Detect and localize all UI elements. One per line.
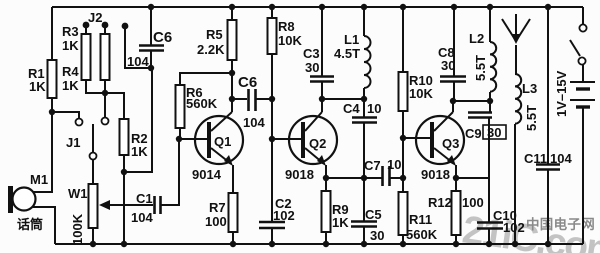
node R8/C6 junction [269, 96, 275, 102]
svg-text:104: 104 [127, 54, 149, 69]
capacitor C2 [259, 221, 285, 224]
wire C2 bottom [271, 228, 273, 244]
svg-text:1K: 1K [62, 38, 79, 53]
svg-text:L2: L2 [469, 31, 484, 46]
svg-text:30: 30 [441, 58, 455, 73]
wire W1 bottom [92, 228, 94, 244]
wire C7 to R11 junction [390, 177, 403, 179]
inductor L1 [364, 36, 371, 88]
connector J1 pin C [90, 153, 97, 160]
wire Q3 emitter down [455, 165, 457, 178]
node R1/J1 junction [49, 109, 55, 115]
resistor R10 [399, 72, 408, 111]
wire C9 top [489, 101, 491, 112]
node R3/R4 junction [102, 90, 108, 96]
node R2 bottom rail [121, 241, 127, 247]
wire R9 bottom [325, 232, 327, 244]
W1 wiper arrow [99, 200, 110, 210]
wire C10 bottom [488, 228, 490, 244]
resistor R7 [229, 193, 238, 232]
wire C11 bottom [547, 169, 549, 244]
node L2 top rail [487, 4, 493, 10]
wire R7 bottom [232, 232, 234, 244]
wire J2 pin3 to C6 bottom [125, 26, 151, 68]
svg-text:30: 30 [305, 60, 319, 75]
wire Q2 collector up [321, 99, 323, 112]
svg-text:C1: C1 [136, 191, 153, 206]
wire C4 bottom [363, 122, 365, 178]
capacitor C6 (bypass) [139, 44, 164, 47]
wire R6 top link [180, 73, 232, 85]
node C8 top rail [451, 4, 457, 10]
svg-text:9018: 9018 [421, 167, 450, 182]
node Q2 base junction [269, 136, 275, 142]
svg-text:10K: 10K [278, 33, 302, 48]
node L2 bottom junction [487, 98, 493, 104]
node J2 pin3 [122, 23, 129, 30]
resistor R4 [101, 34, 110, 80]
node C2 bottom rail [269, 241, 275, 247]
wire Q3 emitter line [456, 177, 489, 179]
wire junction to J1 pin B [104, 93, 106, 117]
node J2 pin1 [83, 22, 90, 29]
svg-text:C7: C7 [364, 158, 381, 173]
wire R8 top [271, 7, 273, 18]
svg-text:R4: R4 [62, 64, 79, 79]
wire C6 bottom [150, 50, 152, 68]
resistor R5 [228, 20, 237, 60]
svg-text:1K: 1K [332, 215, 349, 230]
wire J2 pin1 to R3 [85, 27, 87, 34]
node W1 bottom rail [90, 241, 96, 247]
capacitor C11 [536, 163, 560, 166]
svg-text:W1: W1 [68, 186, 88, 201]
wire L3 bottom [514, 124, 516, 244]
resistor R11 [399, 192, 408, 235]
capacitor C3 [310, 75, 334, 78]
wire emitter line [326, 177, 382, 179]
connector J1 pin A [76, 119, 83, 126]
node C4/C5 junction [361, 175, 367, 181]
svg-text:J2: J2 [88, 10, 102, 25]
wire R2 bottom [123, 155, 125, 244]
node R7 bottom rail [230, 241, 236, 247]
wire mic lower to bottom rail [33, 207, 55, 244]
node C11 top rail [545, 4, 551, 10]
svg-text:560K: 560K [186, 96, 218, 111]
node L1 top rail [361, 4, 367, 10]
wire battery to bottom rail [582, 108, 584, 244]
svg-text:100: 100 [462, 195, 484, 210]
wire R11 bottom [402, 235, 404, 244]
wire Q3 collector up [452, 101, 454, 112]
svg-text:J1: J1 [66, 135, 80, 150]
svg-text:102: 102 [273, 208, 295, 223]
transistor Q1 [195, 116, 243, 164]
wire Q1 emitter down [232, 165, 234, 193]
wire J1 pin C to W1 [92, 160, 94, 184]
svg-text:100: 100 [205, 214, 227, 229]
node C5 bottom rail [361, 241, 367, 247]
wire collector link [453, 100, 490, 102]
wire Q2 emitter down [325, 165, 327, 178]
wire junction to J1 pin A [52, 112, 79, 118]
wire to C6 coupling [232, 98, 247, 100]
svg-text:R8: R8 [278, 19, 295, 34]
wire C6 to R8 junction [256, 98, 272, 100]
svg-text:C6: C6 [238, 74, 257, 91]
wire switch to battery [582, 65, 584, 81]
wire R12 bottom [455, 235, 457, 244]
svg-text:Q1: Q1 [214, 134, 231, 149]
capacitor C7 [381, 166, 384, 186]
wire C6 top [150, 7, 152, 45]
svg-text:1K: 1K [62, 78, 79, 93]
node Q2 collector/tank junction [319, 96, 325, 102]
svg-text:R12: R12 [428, 195, 452, 210]
node L3 bottom rail [512, 241, 518, 247]
node R2/C6 junction [121, 169, 127, 175]
wire C8 top [453, 7, 455, 76]
transistor Q3 [416, 116, 464, 164]
svg-text:Q2: Q2 [309, 136, 326, 151]
node R5 top rail [229, 4, 235, 10]
wire bottom rail [55, 243, 583, 245]
svg-text:5.5T: 5.5T [524, 105, 539, 131]
wire top rail [52, 6, 583, 8]
microphone M1 [8, 186, 13, 213]
svg-text:1K: 1K [131, 144, 148, 159]
svg-text:1K: 1K [29, 79, 46, 94]
svg-text:10: 10 [367, 101, 381, 116]
switch S1 [582, 7, 584, 24]
wire C8 bottom [453, 81, 455, 101]
svg-text:104: 104 [550, 151, 572, 166]
node R12 bottom rail [453, 241, 459, 247]
resistor R9 [325, 178, 327, 191]
node R10 top rail [400, 4, 406, 10]
svg-text:104: 104 [243, 115, 265, 130]
svg-text:5.5T: 5.5T [473, 55, 488, 81]
node C6 top rail [148, 4, 154, 10]
wire R1 to mic [31, 98, 52, 192]
wire C5 bottom [363, 227, 365, 244]
svg-text:100K: 100K [70, 213, 85, 245]
node R11 bottom rail [400, 241, 406, 247]
wire L1 bottom [363, 88, 365, 99]
wire tank link [322, 98, 364, 100]
wire R10 bottom [402, 111, 404, 192]
svg-text:C9: C9 [465, 126, 482, 141]
svg-text:L3: L3 [522, 81, 537, 96]
svg-text:104: 104 [131, 210, 153, 225]
wire R3 bottom to junction [86, 80, 105, 93]
wire R4 bottom to junction [104, 80, 106, 93]
svg-text:560K: 560K [406, 227, 438, 242]
wire R5 bottom [231, 60, 233, 99]
node C10 bottom rail [486, 241, 492, 247]
svg-text:9018: 9018 [285, 167, 314, 182]
capacitor C9 [468, 111, 492, 114]
wire J1 plug lead [92, 124, 94, 152]
node Q1 base junction [176, 136, 182, 142]
svg-text:C5: C5 [365, 207, 382, 222]
svg-text:102: 102 [503, 220, 525, 235]
svg-text:Q3: Q3 [442, 136, 459, 151]
capacitor C8 [440, 75, 466, 78]
node Q1 collector junction [229, 96, 235, 102]
wire antenna mast [515, 45, 517, 74]
wire J2 pin2 to R4 [104, 27, 106, 34]
svg-text:话筒: 话筒 [17, 217, 43, 232]
resistor R1 [48, 60, 57, 98]
wire C3 bottom [321, 81, 323, 99]
svg-text:4.5T: 4.5T [334, 46, 360, 61]
node Q3 collector junction [450, 98, 456, 104]
wire R5 top [231, 7, 233, 20]
svg-text:C3: C3 [303, 46, 320, 61]
node R5/R6 junction [229, 70, 235, 76]
wire C9 bottom [488, 117, 490, 178]
svg-text:C6: C6 [153, 29, 172, 46]
wire base to Q3 [403, 137, 431, 139]
wire C1 to Q1 base [161, 139, 179, 205]
wire C11 top [547, 7, 549, 164]
svg-text:L1: L1 [344, 32, 359, 47]
resistor R3 [82, 34, 91, 80]
svg-text:10K: 10K [409, 86, 433, 101]
wire R10 top [402, 7, 404, 72]
capacitor C6 (coupling) [247, 89, 250, 111]
node C7/R11 junction [400, 175, 406, 181]
svg-text:R5: R5 [206, 27, 223, 42]
wire L2 top [489, 7, 491, 42]
wire R1 column top [51, 7, 53, 60]
wire C4 top [363, 99, 365, 117]
wire L2 bottom [489, 92, 491, 101]
resistor R8 [268, 18, 277, 54]
transistor Q2 [289, 116, 337, 164]
node R9 bottom rail [323, 241, 329, 247]
wire L1 top [363, 7, 365, 36]
node R8 top rail [269, 4, 275, 10]
node Q2 emitter junction [323, 175, 329, 181]
svg-text:C11: C11 [524, 151, 547, 166]
wire C10 top [488, 178, 490, 222]
svg-text:R3: R3 [62, 24, 79, 39]
svg-text:2.2K: 2.2K [197, 42, 225, 57]
node C6 bottom junction [148, 65, 154, 71]
svg-text:1V–15V: 1V–15V [554, 70, 569, 117]
inductor L2 [490, 42, 496, 92]
svg-text:9014: 9014 [192, 167, 222, 182]
node Q3 base junction [400, 135, 406, 141]
wire C3 top [321, 7, 323, 76]
inductor L3 [515, 74, 521, 124]
resistor R12 [455, 178, 457, 191]
wire base to Q2 [272, 138, 301, 140]
svg-text:中国电子网: 中国电子网 [526, 216, 595, 232]
svg-text:R7: R7 [209, 200, 226, 215]
node Q3 emitter junction [453, 175, 459, 181]
svg-text:30: 30 [370, 228, 384, 243]
svg-text:R11: R11 [409, 212, 432, 227]
capacitor C1 [153, 196, 156, 214]
wire R6 bottom [179, 128, 181, 139]
wire C5 top [363, 178, 365, 221]
resistor R2 [120, 119, 129, 155]
antenna [502, 19, 516, 41]
wire Q1 collector up [231, 99, 233, 112]
svg-text:10: 10 [387, 157, 401, 172]
wire base to Q1 [179, 138, 208, 140]
node C3 top rail [319, 4, 325, 10]
capacitor C5 [351, 220, 377, 223]
svg-text:C4: C4 [343, 101, 360, 116]
node J2 pin2 [102, 22, 109, 29]
battery B1 [570, 81, 595, 83]
node L1/C4 junction [361, 96, 367, 102]
wire R8 bottom [271, 54, 273, 139]
wire junction to R2 [105, 93, 124, 119]
resistor R6 [176, 85, 185, 128]
capacitor C10 [477, 221, 503, 224]
potentiometer W1 [89, 184, 98, 228]
wire junction to C6 column [124, 68, 152, 172]
wire C2 column [271, 139, 273, 222]
node C11 bottom rail [545, 241, 551, 247]
svg-text:M1: M1 [30, 172, 48, 187]
connector J1 pin B [102, 118, 109, 125]
capacitor C4 [352, 116, 377, 119]
